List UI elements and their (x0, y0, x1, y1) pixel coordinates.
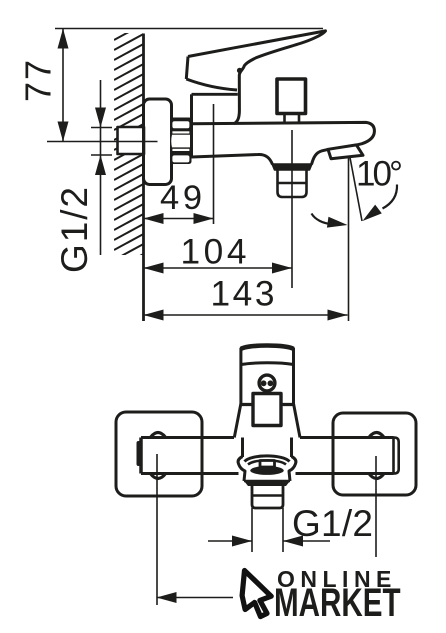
logo cursor (242, 571, 271, 617)
handle cap top arch (241, 346, 294, 349)
handle base bottom (186, 79, 237, 90)
G1/2 arrow up (95, 155, 106, 175)
slot (260, 461, 275, 468)
lever side ticks (241, 403, 294, 406)
shower pipe front (252, 486, 283, 508)
spout aerator (328, 145, 363, 159)
collar top tick (192, 93, 238, 96)
extension pipe left (251, 508, 253, 552)
wall pipe nipple G1/2 (118, 127, 145, 154)
handle lever (188, 31, 326, 124)
dim 77 arrow down (58, 122, 69, 142)
faucet body top edge (192, 122, 375, 145)
svg-text:104: 104 (181, 233, 247, 272)
knob stem (285, 114, 300, 123)
shower outlet pipe (278, 170, 307, 197)
dimension 77 line (62, 29, 64, 142)
top extension line (77) (55, 28, 323, 30)
lever front rect (253, 394, 281, 426)
svg-text:G1/2: G1/2 (54, 187, 95, 273)
left escutcheon front (116, 412, 202, 496)
10 degree arc left (312, 214, 333, 225)
screw circle (259, 375, 275, 391)
cap divider line (241, 363, 294, 365)
rim outer (245, 456, 290, 462)
rim inner (248, 460, 286, 464)
extension right escutcheon center (375, 456, 377, 557)
column sides (241, 348, 294, 404)
dimension 49 (144, 218, 214, 220)
dim 77 arrow up (58, 29, 69, 49)
svg-text:10°: 10° (356, 155, 403, 194)
extension line spout (348, 158, 350, 321)
G1/2 (wall thread) dim line (100, 80, 102, 255)
dimension 143 (144, 314, 348, 316)
collar flare (234, 404, 300, 438)
hex nut (170, 118, 192, 165)
right escutcheon front (333, 413, 416, 495)
shower outlet collar (272, 164, 312, 170)
aerator ellipse dark (250, 466, 284, 475)
G1/2 arrow down (95, 108, 106, 128)
outlet thread line (278, 182, 307, 185)
bar right cap (394, 438, 399, 474)
bar left sliver (137, 441, 142, 466)
bar left end (139, 438, 143, 474)
svg-text:MARKET: MARKET (274, 581, 401, 625)
handle left edge (186, 57, 188, 80)
extension pipe right (282, 508, 284, 552)
right wing (289, 457, 296, 482)
G1/2 bottom dim (208, 540, 330, 542)
svg-text:143: 143 (211, 275, 275, 314)
diverter knob (277, 79, 306, 114)
underside right of outlet (312, 149, 329, 164)
G1/2 tick bottom (91, 154, 112, 156)
left bumps (151, 433, 166, 438)
extension line outlet axis (291, 130, 293, 288)
dimension 104 (144, 267, 293, 269)
right bumps (369, 433, 384, 438)
G1/2 tick top (91, 127, 112, 129)
10 degree arc right (383, 185, 398, 209)
bottom line of white band (244, 480, 290, 482)
bottom dim arrow (157, 597, 233, 599)
extension left escutcheon center (156, 454, 158, 605)
svg-text:G1/2: G1/2 (292, 503, 373, 544)
pipe collar line (252, 494, 283, 497)
body underside (192, 154, 273, 164)
spout front sides (243, 438, 292, 458)
escutcheon side view (144, 99, 172, 185)
bar top edge (141, 436, 394, 439)
dark trapezoid band (244, 481, 290, 486)
faucet body left edge (190, 94, 193, 157)
bar bottom edge (141, 472, 394, 475)
wall face line (142, 34, 145, 322)
10 degree slope line (350, 158, 362, 222)
svg-text:77: 77 (18, 60, 59, 102)
left wing (238, 457, 245, 482)
handle knuckle (237, 68, 242, 73)
extension line valve axis (213, 104, 215, 224)
pipe centerline (47, 141, 158, 143)
